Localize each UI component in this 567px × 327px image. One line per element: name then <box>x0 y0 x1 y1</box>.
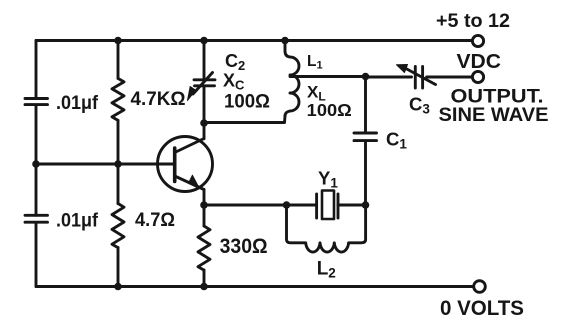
wire emitter node to crystal <box>204 204 317 207</box>
svg-text:.01μf: .01μf <box>56 211 99 232</box>
capacitor C2 branch vertical <box>203 41 206 123</box>
svg-text:C3: C3 <box>409 94 430 117</box>
node crystal left <box>283 201 291 209</box>
node base bias <box>114 160 122 168</box>
wire bottom rail <box>36 285 473 288</box>
wire left vertical (through C4/C5 gaps) <box>35 41 38 287</box>
terminal 0V <box>474 281 486 293</box>
wire C2/L1 loop bottom <box>204 116 285 123</box>
svg-text:4.7KΩ: 4.7KΩ <box>131 88 186 110</box>
node top rail / L1 <box>281 37 289 45</box>
svg-text:+5 to 12: +5 to 12 <box>436 11 510 32</box>
node bottom rail / bias <box>114 283 122 291</box>
svg-text:100Ω: 100Ω <box>224 92 270 113</box>
wire 330 branch <box>203 205 206 287</box>
inductor L2 branch <box>287 205 366 252</box>
svg-text:330Ω: 330Ω <box>220 234 268 258</box>
svg-text:100Ω: 100Ω <box>307 100 352 120</box>
node crystal right <box>362 201 370 209</box>
transistor Q1 collector diagonal <box>175 139 204 153</box>
terminal output <box>472 71 483 82</box>
svg-text:L2: L2 <box>317 259 336 281</box>
capacitor C2 arrow <box>193 73 213 95</box>
wire emitter down to node <box>203 190 206 206</box>
crystal Y1 plates <box>317 194 338 218</box>
node base left <box>32 160 40 168</box>
svg-text:VDC: VDC <box>457 50 502 73</box>
transistor Q1 circle <box>158 137 213 192</box>
resistor R2 4.7 zigzag <box>112 204 124 248</box>
svg-text:.01μf: .01μf <box>56 93 99 114</box>
svg-text:4.7Ω: 4.7Ω <box>135 209 175 231</box>
wire L1 tap to junction <box>290 75 366 78</box>
node top rail / bias <box>114 37 122 45</box>
terminal +V <box>472 35 483 46</box>
wire top rail <box>36 39 472 42</box>
capacitor C5 plates <box>25 215 48 222</box>
capacitor C4 plates <box>25 99 48 105</box>
node top rail / C2 <box>200 37 208 45</box>
inductor L1 <box>285 41 299 117</box>
transistor Q1 emitter arrowhead <box>189 175 200 188</box>
capacitor C1 branch vertical <box>364 77 367 205</box>
svg-text:XC: XC <box>223 71 245 93</box>
crystal Y1 body <box>322 191 334 220</box>
svg-text:0 VOLTS: 0 VOLTS <box>440 296 524 320</box>
capacitor C1 plates <box>354 133 377 141</box>
wire C3 to output terminal <box>427 76 472 79</box>
wire base <box>36 163 175 166</box>
node bottom rail / 330 <box>200 283 208 291</box>
svg-text:L1: L1 <box>307 53 323 72</box>
node emitter <box>200 201 208 209</box>
wire collector stub <box>203 123 206 139</box>
capacitor C3 plates <box>415 67 422 89</box>
node collector <box>200 119 208 127</box>
resistor R1 4.7K zigzag <box>112 78 124 120</box>
node L1 tap / C3 / C1 <box>362 73 370 81</box>
transistor Q1 emitter diagonal <box>175 176 204 190</box>
transistor Q1 base bar <box>173 148 177 182</box>
svg-text:SINE WAVE: SINE WAVE <box>439 104 549 126</box>
capacitor C2 plates <box>194 80 215 86</box>
wire bias branch vertical <box>117 41 120 287</box>
wire crystal to right node <box>338 204 366 207</box>
svg-text:C1: C1 <box>386 129 407 152</box>
resistor R3 330 zigzag <box>198 226 210 270</box>
wire junction to C3 <box>366 76 412 79</box>
svg-text:Y1: Y1 <box>318 168 338 191</box>
capacitor C3 arrow <box>404 68 436 85</box>
